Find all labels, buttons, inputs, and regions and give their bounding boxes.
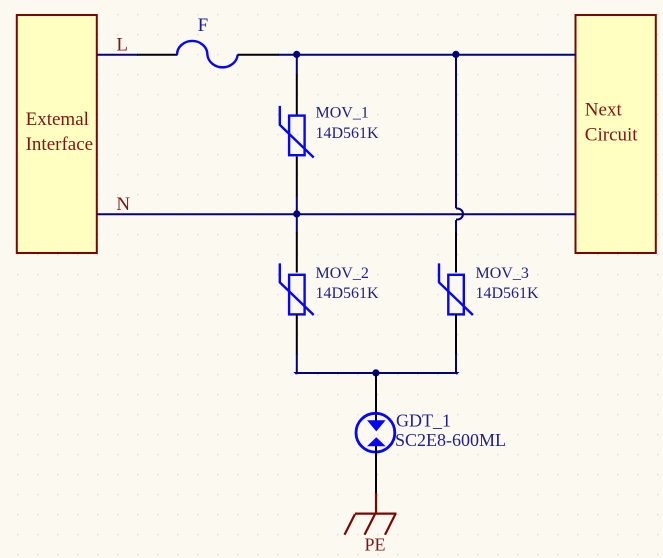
junction dot on L at MOV_3 branch [452,51,459,58]
wire: bottom bus MOV_2 to MOV_3 [296,373,457,374]
sheet block Next Circuit [576,15,656,253]
junction dot on bottom bus at GDT [372,369,379,376]
wire: L junction down to MOV_1 [296,55,298,75]
MOV_1 pin 2 [296,157,298,197]
wire: hop to MOV_3 [455,220,457,232]
MOV_2 body [289,275,305,315]
varistor MOV_3 [439,232,473,355]
GDT_1 lower electrode triangle [367,437,386,446]
label MOV_2 with value 14D561K [316,265,380,302]
MOV_1 diagonal stroke [280,106,314,158]
wire: MOV_2 bottom leg [296,354,298,373]
MOV_3 pin 2 [455,314,457,355]
GDT_1 upper electrode triangle [367,420,386,431]
sheet block External Interface [17,15,97,253]
GDT_1 pin 2 [375,446,377,494]
svg-text:14D561K: 14D561K [316,285,380,302]
GDT_1 envelope circle [356,413,395,452]
svg-text:Circuit: Circuit [585,125,638,146]
svg-text:GDT_1: GDT_1 [396,410,451,430]
wire: MOV_3 bottom leg [455,354,457,373]
MOV_2 pin 2 [296,314,298,355]
PE slash 2 [365,514,375,535]
power port PE (protective earth ground) [345,493,397,535]
wire: MOV_1 to N junction [296,196,298,233]
svg-text:MOV_1: MOV_1 [316,105,369,122]
MOV_3 body [448,275,464,315]
svg-text:Interface: Interface [26,134,94,155]
svg-text:L: L [116,35,128,56]
MOV_1 body [289,116,305,156]
GDT_1 pin 1 [375,373,377,421]
MOV_2 pin 1 [296,232,298,273]
svg-text:F: F [198,15,209,36]
label MOV_3 with value 14D561K [476,265,540,302]
wire hop over N (no connection) [456,209,463,220]
fuse F pin 1 [137,54,178,56]
varistor MOV_2 [280,232,314,355]
MOV_1 pin 1 [296,75,298,116]
fuse F [137,41,279,67]
svg-text:SC2E8-600ML: SC2E8-600ML [395,430,506,450]
wire L: box to fuse [97,54,138,56]
label MOV_1 with value 14D561K [316,105,380,142]
svg-text:MOV_2: MOV_2 [316,265,369,282]
svg-text:14D561K: 14D561K [316,125,380,142]
wire: L junction down to N crossover (MOV_3 branch) [455,55,457,209]
junction dot on L at MOV_1 [293,51,300,58]
svg-text:Extemal: Extemal [26,109,89,130]
svg-text:N: N [116,194,130,215]
svg-text:Next: Next [585,100,623,121]
junction dot on N at MOV_1/MOV_2 [293,210,300,217]
svg-text:14D561K: 14D561K [476,285,540,302]
label GDT_1 with value SC2E8-600ML [395,410,506,449]
PE stem [375,493,377,514]
varistor MOV_1 [280,75,314,197]
gas discharge tube GDT_1 [356,373,395,494]
fuse F body [177,41,238,67]
wire N [97,213,576,215]
PE bar [355,512,397,514]
svg-text:MOV_3: MOV_3 [476,265,529,282]
fuse F pin 2 [238,54,280,56]
MOV_3 diagonal stroke [439,263,473,315]
wire L: fuse to Next Circuit [278,54,576,56]
MOV_2 diagonal stroke [280,263,314,315]
MOV_3 pin 1 [455,232,457,273]
PE slash 1 [345,514,355,535]
PE slash 3 [385,514,395,535]
svg-text:PE: PE [365,535,386,555]
